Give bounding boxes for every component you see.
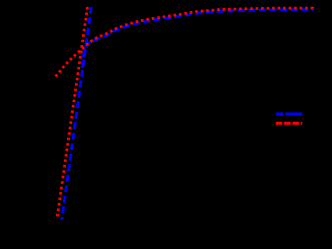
- red dotted steep line: [57, 7, 87, 217]
- blue dashed steep line: [62, 7, 92, 220]
- blue dashed saturating curve: [82, 10, 313, 68]
- legend blue dashed sample: [276, 113, 303, 116]
- red dotted saturating curve: [56, 8, 314, 76]
- legend red dotted sample: [276, 122, 303, 125]
